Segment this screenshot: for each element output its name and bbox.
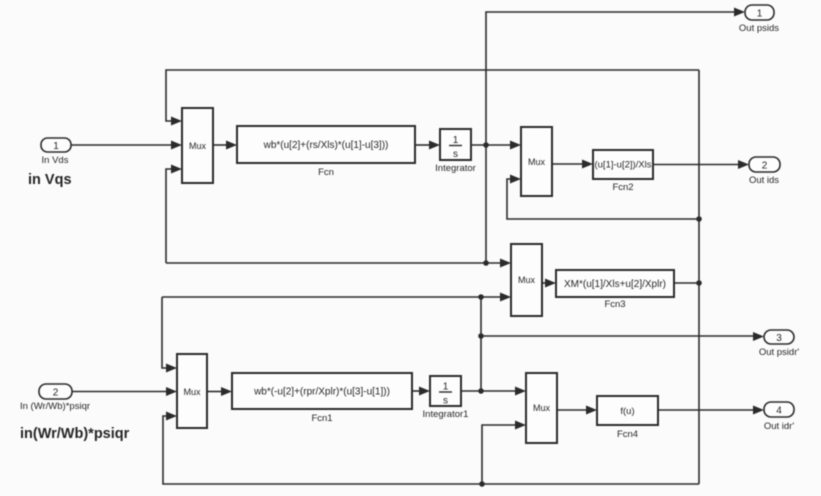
mux Mux2 (top-right) [521,127,552,196]
svg-text:wb*(u[2]+(rs/Xls)*(u[1]-u[3])): wb*(u[2]+(rs/Xls)*(u[1]-u[3])) [263,140,389,151]
svg-text:2: 2 [762,161,768,172]
wire integrator net up to Outport1 [486,8,745,146]
svg-text:Mux: Mux [528,157,546,167]
svg-text:Fcn: Fcn [318,167,334,178]
wire Mux2 out to Fcn2 [552,160,593,169]
wire x166 up to Mux in3 [166,165,182,264]
svg-text:in Vqs: in Vqs [28,172,72,188]
wire y263 to Mux3 in1 [166,259,511,268]
svg-text:Out psidr': Out psidr' [759,347,800,358]
wire integrator1 net up x481 [480,297,482,391]
junction at (482,484) [479,481,485,487]
fcn block Fcn [237,126,415,163]
mux Mux (top-left) [182,108,213,183]
svg-text:1: 1 [453,135,459,146]
wire x162 down to Mux4 in1 [162,297,177,373]
svg-text:Fcn2: Fcn2 [612,182,633,193]
wire In2 to Mux4 in2 [72,387,177,396]
junction at (481,336) [478,333,484,339]
svg-text:Fcn4: Fcn4 [617,429,638,440]
wire to Outport3 [481,332,764,341]
svg-text:1: 1 [757,9,763,20]
svg-text:3: 3 [776,333,782,344]
inport 2 In (Wr/Wb)*psiqr [39,384,72,399]
mux Mux5 (bottom-right) [526,373,557,443]
mux Mux4 (bottom-left) [177,354,207,428]
fcn block Fcn1 [232,373,412,409]
wire Mux out to Fcn [213,141,237,150]
wire backbone vertical x699 [698,70,700,484]
junction at (699,219) [696,216,702,222]
junction at integrator1 output [478,388,484,394]
outport 1 Out psids [745,5,774,20]
wire integrator net down to y263 [485,145,487,263]
svg-text:Mux: Mux [518,275,536,285]
svg-text:s: s [443,396,448,407]
junction at (699,283) [696,280,702,286]
svg-text:XM*(u[1]/Xls+u[2]/Xplr): XM*(u[1]/Xls+u[2]/Xplr) [564,279,666,290]
wire Fcn1 to Integrator1 [412,387,430,396]
wire Mux3 out to Fcn3 [542,279,556,288]
fcn block Fcn2 [593,150,653,179]
wire y297 to Mux3 in2 [162,293,511,302]
fcn block Fcn3 [556,270,674,297]
integrator block Integrator [440,129,471,160]
junction at (486,263) [483,260,489,266]
svg-text:Integrator: Integrator [435,163,476,174]
svg-text:in(Wr/Wb)*psiqr: in(Wr/Wb)*psiqr [20,426,130,442]
wire Integrator1 to Mux5 in1 [461,387,526,396]
junction at (481,297) [478,294,484,300]
wire Fcn to Integrator [415,141,440,150]
wire Fcn2 to Outport2 [653,160,749,169]
outport 2 Out ids [749,157,780,172]
svg-text:s: s [453,149,458,160]
wire Mux4 out to Fcn1 [207,387,232,396]
svg-text:Integrator1: Integrator1 [423,409,469,420]
wire backbone to Mux2 in2 [507,175,699,220]
integrator block Integrator1 [430,376,461,407]
svg-text:Out idr': Out idr' [764,421,795,432]
wire Fcn3 out to backbone junction [674,282,699,284]
inport 1 In Vds [41,138,71,152]
svg-text:wb*(-u[2]+(rpr/Xplr)*(u[3]-u[1: wb*(-u[2]+(rpr/Xplr)*(u[3]-u[1])) [253,387,390,398]
svg-text:Fcn3: Fcn3 [604,299,625,310]
svg-text:1: 1 [53,141,59,152]
mux Mux3 (middle) [511,244,542,316]
wire Fcn4 to Outport4 [658,406,764,415]
wire backbone bottom route to Mux4 in3 [163,412,699,485]
svg-text:(u[1]-u[2])/Xls: (u[1]-u[2])/Xls [594,160,651,171]
wire branch to Mux5 in2 [482,421,526,485]
svg-text:Out psids: Out psids [739,23,779,34]
svg-text:2: 2 [53,388,59,399]
svg-text:Mux: Mux [183,387,201,397]
svg-text:4: 4 [776,406,782,417]
svg-text:In Vds: In Vds [42,155,69,166]
svg-text:Out ids: Out ids [749,175,779,186]
svg-text:f(u): f(u) [620,406,634,417]
junction at integrator output [483,142,489,148]
wire Integrator to Mux2 in1 [471,141,521,150]
svg-text:Mux: Mux [189,141,207,151]
svg-text:Fcn1: Fcn1 [311,413,332,424]
wire backbone top route to Mux in1 [166,70,699,126]
wire In1 to Mux in2 [71,141,182,150]
svg-text:In (Wr/Wb)*psiqr: In (Wr/Wb)*psiqr [20,401,90,412]
outport 4 Out idr' [764,402,794,417]
fcn block Fcn4 [597,396,658,425]
svg-text:1: 1 [443,382,449,393]
wire Mux5 out to Fcn4 [557,406,597,415]
outport 3 Out psidr' [764,330,794,344]
svg-text:Mux: Mux [533,403,551,413]
